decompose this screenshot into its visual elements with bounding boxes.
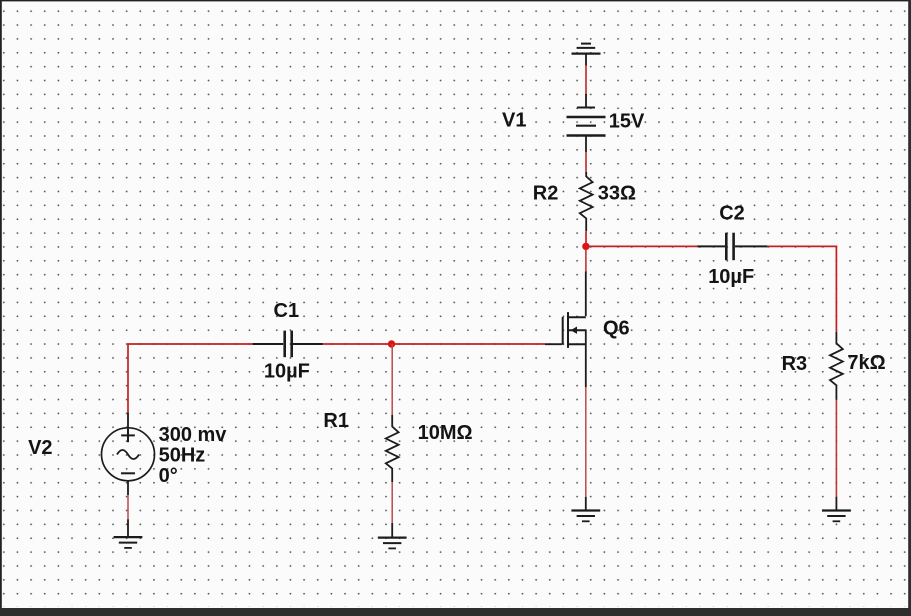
resistor R3 xyxy=(830,332,843,400)
wire drain node to Q6 drain xyxy=(585,249,587,273)
ground (V2) xyxy=(114,519,143,548)
capacitor C2 xyxy=(697,233,767,261)
svg-text:C1: C1 xyxy=(274,300,300,322)
svg-text:15V: 15V xyxy=(609,110,645,132)
wire Q6 source to ground xyxy=(585,387,587,497)
ground (top, V1) xyxy=(572,44,601,66)
svg-text:R2: R2 xyxy=(533,182,559,204)
svg-text:7kΩ: 7kΩ xyxy=(847,352,885,374)
svg-text:10µF: 10µF xyxy=(264,360,310,382)
wire gate node to R1 xyxy=(391,344,393,415)
svg-text:R1: R1 xyxy=(323,410,349,432)
wire R3 to ground xyxy=(835,400,837,497)
source V2 (AC) xyxy=(102,412,155,495)
svg-text:33Ω: 33Ω xyxy=(598,182,636,204)
svg-text:10MΩ: 10MΩ xyxy=(418,422,473,444)
wire R1 to ground xyxy=(391,482,393,523)
wire V1 to R2 xyxy=(585,152,587,173)
wire C1 to gate node xyxy=(323,343,392,345)
svg-text:Q6: Q6 xyxy=(603,317,630,339)
capacitor C1 xyxy=(252,331,323,358)
svg-text:50Hz: 50Hz xyxy=(159,445,206,467)
svg-text:V1: V1 xyxy=(502,109,526,131)
wire gate node to Q6 gate xyxy=(392,343,546,345)
resistor R1 xyxy=(386,415,399,482)
ground (R3) xyxy=(822,497,851,521)
node gate junction xyxy=(388,340,395,347)
node drain junction xyxy=(582,243,589,250)
svg-text:300 mv: 300 mv xyxy=(159,424,228,446)
wire node to C2 xyxy=(586,245,697,247)
wire V2 to C1 xyxy=(128,344,252,412)
svg-text:R3: R3 xyxy=(782,353,808,375)
ground (R1) xyxy=(378,523,407,548)
svg-text:V2: V2 xyxy=(28,437,52,459)
transistor Q6 (NMOS) xyxy=(545,272,587,388)
wire ground to V1 xyxy=(585,65,587,95)
svg-text:0°: 0° xyxy=(159,465,178,487)
wire R2 to drain node xyxy=(585,231,587,246)
wire V2 to ground xyxy=(127,495,129,519)
svg-text:C2: C2 xyxy=(719,203,745,225)
ground (Q6 source) xyxy=(571,497,600,522)
svg-text:10µF: 10µF xyxy=(708,266,754,288)
wire C2 to R3 corner xyxy=(767,246,836,331)
resistor R2 xyxy=(580,172,593,231)
voltage source V1 battery xyxy=(567,94,606,152)
